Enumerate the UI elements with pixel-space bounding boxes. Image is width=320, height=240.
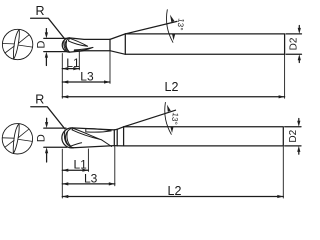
shank (bottom) (124, 127, 284, 146)
text labels (bottom) (35, 92, 299, 197)
text labels (top) (35, 4, 299, 94)
dimension L2 (bottom) (62, 195, 283, 198)
svg-text:L1: L1 (74, 158, 88, 172)
dimension L2 (top) (62, 95, 284, 98)
dimension L1 (bottom) (62, 169, 88, 172)
front view circle (top tool) (2, 29, 32, 59)
extension lines (top) (62, 52, 284, 99)
dimension D (bottom tool) (44, 118, 67, 162)
flutes (bottom) (64, 128, 111, 148)
dimension D (top tool) (44, 29, 67, 66)
tool body (top): cut + neck outline (69, 34, 125, 54)
tool body (top): ball nose (62, 38, 69, 52)
front view circle (bottom tool) (2, 124, 32, 154)
svg-text:13°: 13° (170, 112, 180, 125)
svg-text:R: R (35, 92, 44, 106)
svg-text:L1: L1 (66, 56, 80, 70)
svg-text:L3: L3 (84, 171, 98, 185)
tool body (bottom): cut outline (72, 127, 123, 148)
angle 13 deg (bottom) (124, 102, 176, 134)
dimension L3 (top) (62, 80, 110, 83)
leader R (top tool) (31, 18, 65, 38)
svg-text:L2: L2 (168, 184, 182, 198)
svg-text:L2: L2 (165, 80, 179, 94)
dimension L3 (bottom) (62, 182, 115, 185)
dimension D2 (top) (286, 26, 302, 63)
shank (top) (125, 34, 284, 54)
svg-text:D: D (36, 40, 48, 48)
svg-text:R: R (35, 4, 44, 18)
svg-text:D2: D2 (288, 129, 299, 142)
leader R (bottom tool) (31, 107, 65, 129)
extension lines (bottom) (62, 146, 283, 198)
angle 13 deg (top) (125, 10, 177, 43)
svg-text:L3: L3 (80, 70, 94, 84)
dimension L1 (top) (62, 67, 79, 70)
svg-text:D2: D2 (289, 37, 300, 50)
tool body (bottom): ball nose (62, 128, 73, 148)
dimension D2 (bottom) (285, 119, 301, 155)
svg-text:13°: 13° (175, 18, 185, 31)
svg-text:D: D (35, 134, 47, 142)
flutes (top) (64, 38, 93, 52)
